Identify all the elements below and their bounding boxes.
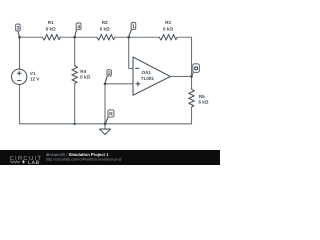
resistor R5	[189, 89, 195, 107]
wire stub node 4	[75, 30, 77, 37]
wire top-left segment node3 to R1	[20, 36, 43, 38]
svg-text:TL081: TL081	[141, 76, 155, 81]
wire non-inverting input from node2	[105, 83, 133, 85]
svg-text:3: 3	[17, 25, 20, 31]
wire ground stub	[104, 124, 106, 129]
wire R2 to node1 to R3	[115, 36, 159, 38]
wire R3 to top-right corner down to output node	[177, 37, 191, 76]
voltage source V1 circle	[12, 69, 27, 84]
node digits	[17, 24, 198, 117]
svg-text:http://circuitlab.com/c/4wv85s: http://circuitlab.com/c/4wv85s/simulatio…	[46, 157, 122, 161]
resistor R4	[72, 66, 78, 84]
svg-text:6 kΩ: 6 kΩ	[100, 26, 110, 31]
wire stub node R	[105, 117, 108, 124]
node digit 0 ring	[195, 67, 198, 70]
svg-text:R4: R4	[80, 69, 86, 74]
footer CircuitLab logo LAB row	[10, 160, 40, 166]
svg-text:2: 2	[108, 71, 111, 77]
node box 1	[131, 23, 136, 30]
svg-text:R3: R3	[165, 20, 171, 25]
V1 minus sign	[18, 80, 22, 82]
resistor R1	[42, 34, 60, 40]
svg-text:1: 1	[132, 24, 135, 30]
node box 2	[107, 70, 111, 76]
wire output node down to R5	[191, 76, 193, 89]
wire left rail lower (V1 bottom to rail)	[19, 85, 21, 124]
resistor R2	[97, 34, 115, 40]
wire R5 to bottom-right corner	[191, 107, 193, 124]
svg-text:R2: R2	[102, 20, 108, 25]
wire stub node 1	[129, 30, 132, 37]
node C junction at node1	[127, 36, 130, 39]
wire bottom rail	[20, 123, 192, 125]
node A junction at node3/top-left	[18, 36, 21, 39]
svg-text:dlozano30 / Simulation Project: dlozano30 / Simulation Project 1	[46, 152, 109, 157]
junction dots	[18, 36, 193, 125]
node E junction at output	[190, 75, 193, 78]
svg-text:6 kΩ: 6 kΩ	[163, 26, 173, 31]
node B junction at node4	[73, 36, 76, 39]
node box O	[193, 64, 200, 73]
V1 plus sign	[18, 72, 22, 75]
node G junction R4 bottom rail	[74, 123, 76, 125]
svg-text:LAB: LAB	[28, 160, 40, 165]
wire node1 feedback down and into inverting input	[129, 37, 133, 68]
wire R4 to bottom rail	[74, 84, 76, 124]
svg-text:4: 4	[77, 24, 80, 30]
resistor R3	[159, 34, 177, 40]
wire node4 down to R4	[74, 37, 76, 65]
node box 4	[76, 23, 81, 30]
wire left rail upper (node3 to V1 top)	[19, 37, 21, 69]
op-amp minus input symbol	[136, 67, 139, 69]
node F junction at ground rail	[104, 123, 107, 126]
svg-text:12 V: 12 V	[30, 76, 40, 81]
svg-text:R1: R1	[48, 20, 54, 25]
node D junction at node2 / plus input	[104, 83, 107, 86]
footer bar	[0, 150, 220, 165]
ground symbol triangle	[100, 129, 111, 134]
svg-text:6 kΩ: 6 kΩ	[46, 26, 56, 31]
wire stub node O	[192, 73, 194, 77]
wire op-amp output to node O	[170, 75, 191, 77]
wire R1 to node4 to R2	[60, 36, 97, 38]
op-amp plus input symbol	[136, 82, 140, 86]
node box R	[108, 110, 114, 117]
svg-text:R: R	[109, 112, 113, 118]
node label stubs	[18, 30, 193, 124]
op-amp U1 triangle body	[133, 57, 170, 95]
node box 3	[16, 24, 21, 31]
node name boxes	[16, 23, 200, 118]
svg-text:6 kΩ: 6 kΩ	[80, 74, 90, 79]
wire stub node 2	[105, 76, 107, 83]
svg-text:R5: R5	[199, 94, 205, 99]
svg-text:OA1: OA1	[142, 70, 152, 75]
wire node2 down to ground rail	[104, 84, 106, 124]
svg-text:V1: V1	[30, 71, 36, 76]
component labels	[30, 20, 209, 104]
wire stub node 3	[18, 31, 20, 37]
svg-text:6 kΩ: 6 kΩ	[198, 100, 208, 105]
